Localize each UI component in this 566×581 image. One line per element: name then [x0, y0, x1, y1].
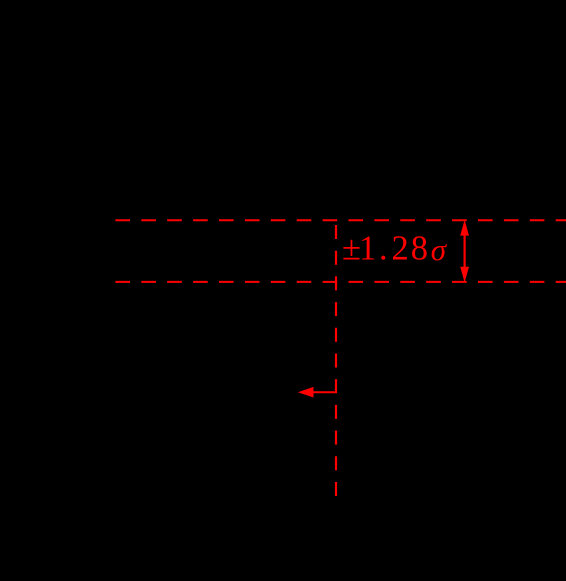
svg-text:.: . [379, 230, 388, 268]
forecast mean vertical dashed line [335, 225, 337, 497]
left arrow head [298, 387, 314, 398]
interval arrow bottom head [460, 267, 469, 283]
svg-text:8: 8 [411, 230, 428, 268]
upper confidence bound dashed line [115, 219, 566, 221]
svg-text:σ: σ [431, 232, 448, 267]
svg-text:1: 1 [359, 230, 376, 268]
left arrow shaft [303, 391, 336, 393]
interval double arrow shaft [464, 233, 466, 269]
svg-text:2: 2 [392, 230, 409, 268]
interval arrow top head [460, 220, 469, 236]
lower confidence bound dashed line [115, 281, 566, 283]
